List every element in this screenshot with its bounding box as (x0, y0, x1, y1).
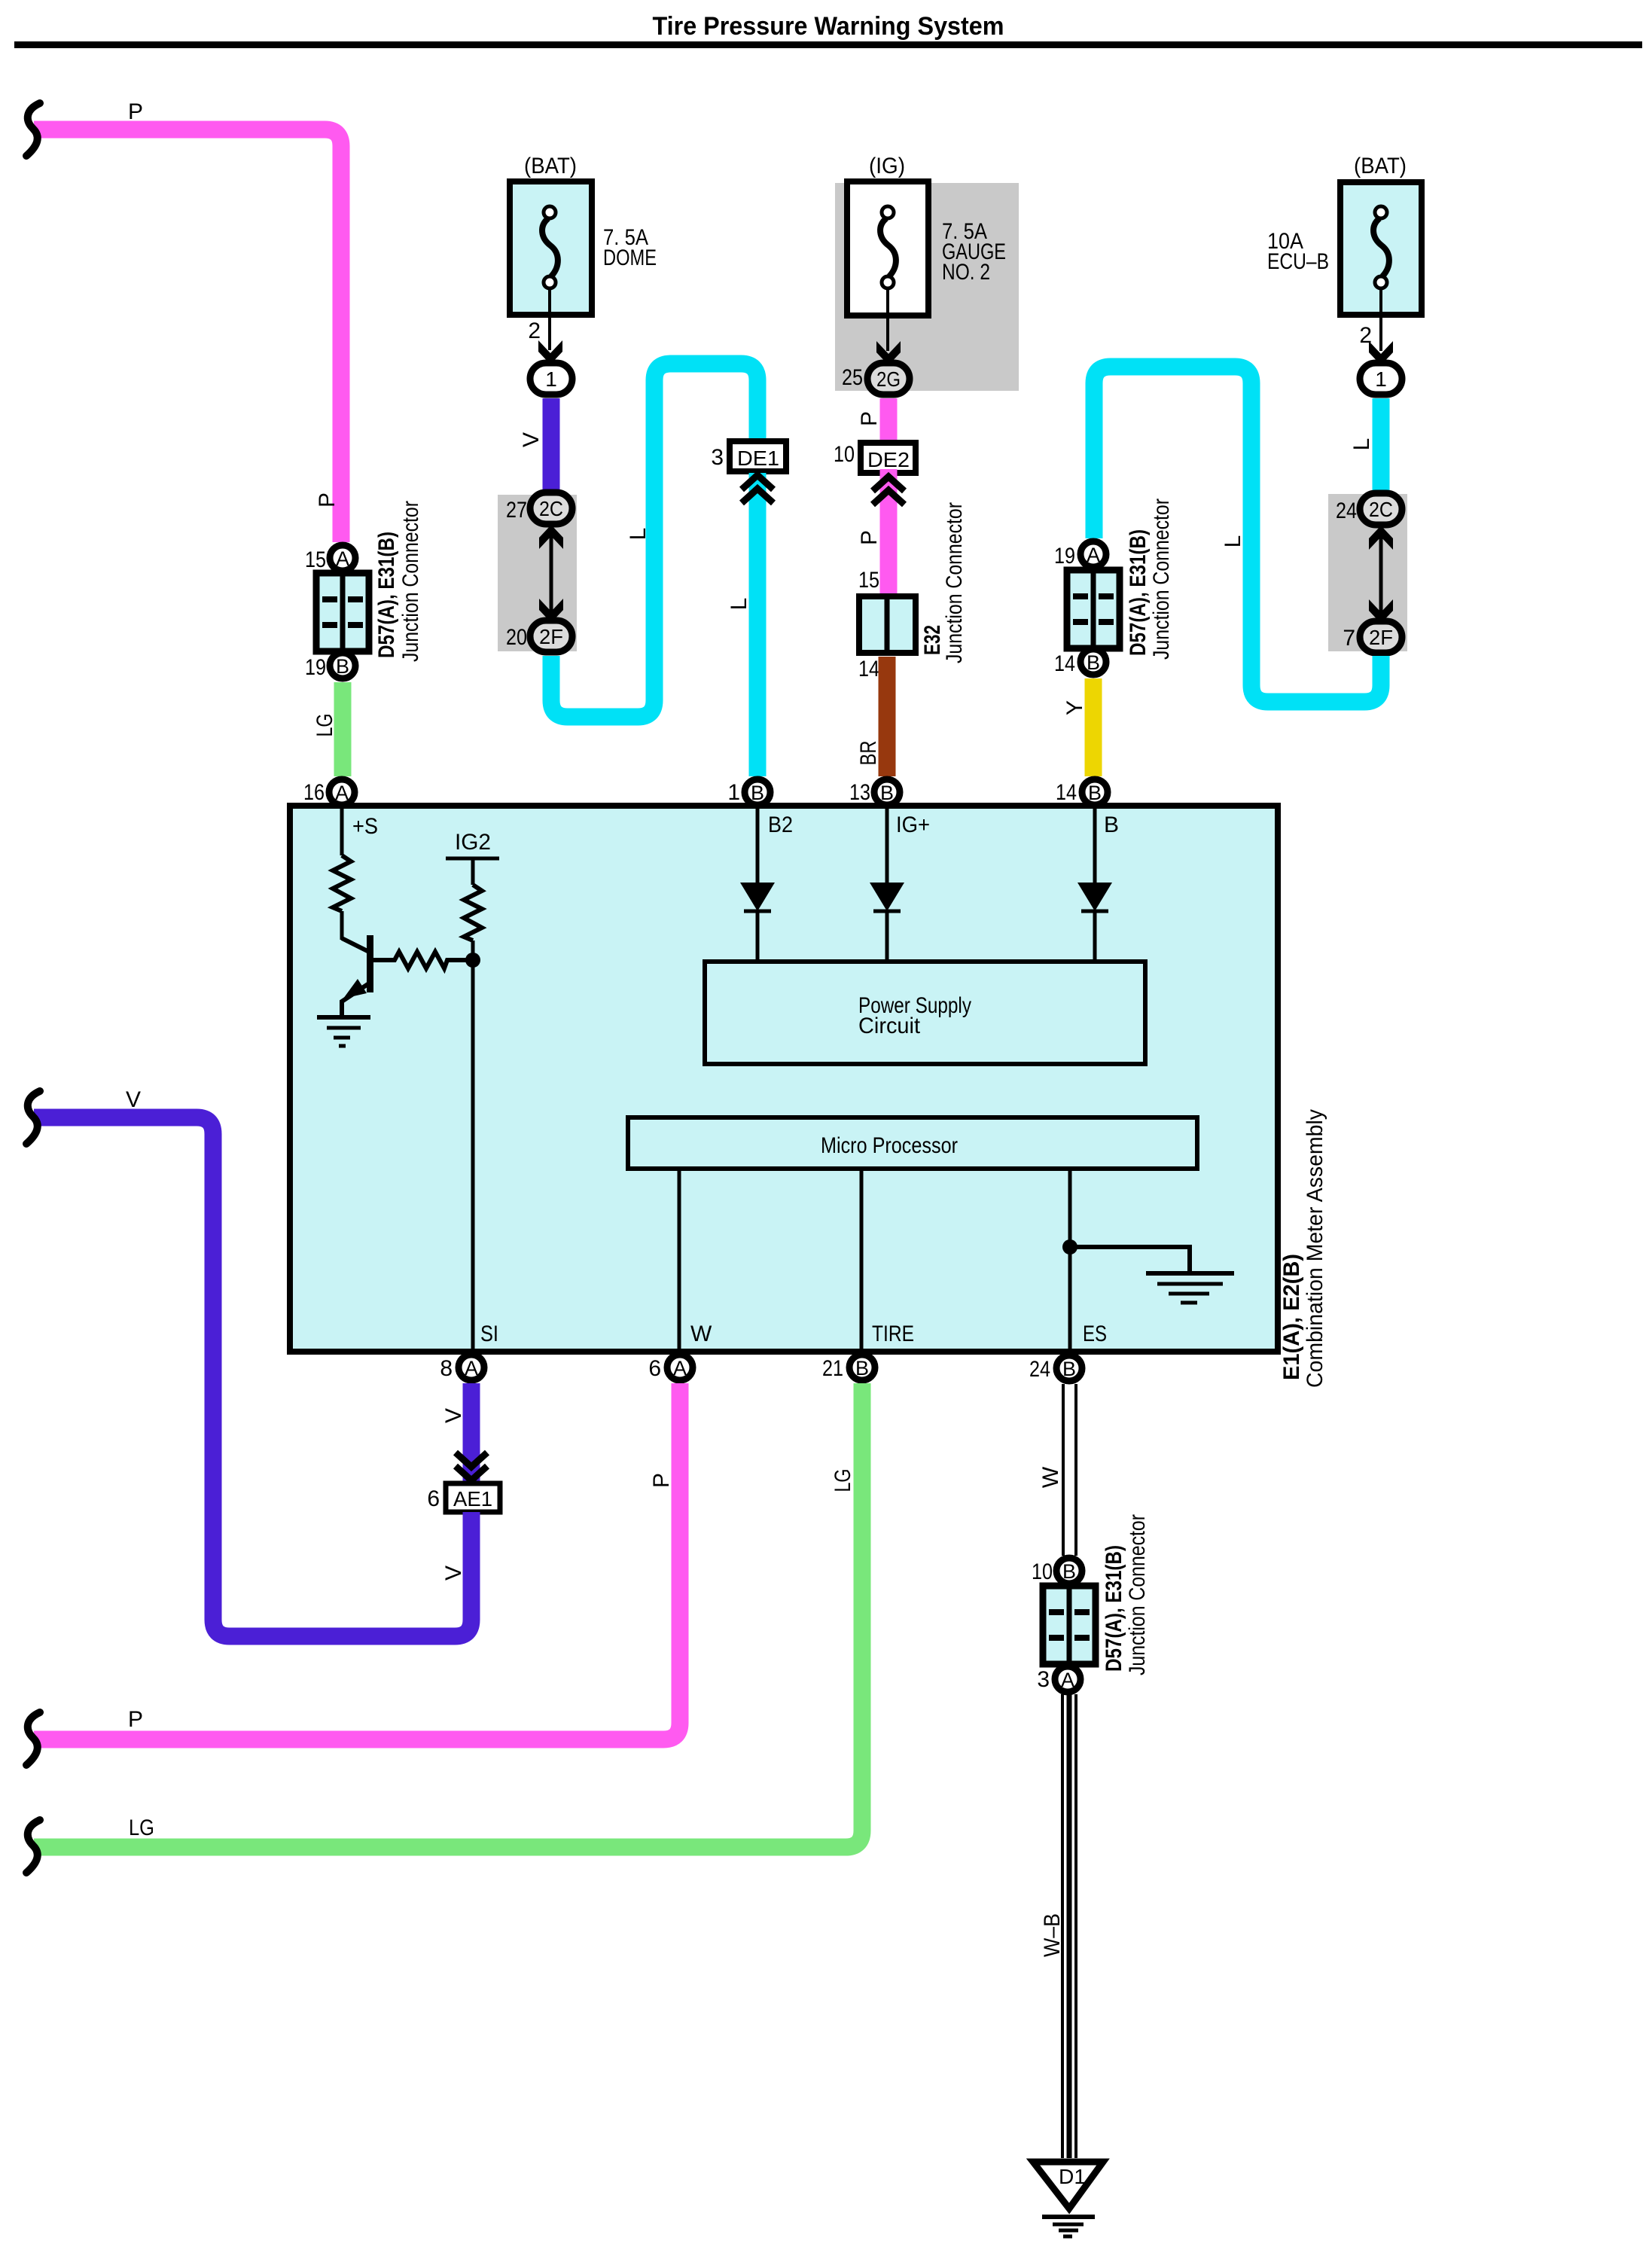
connector oval 1 (ecu-b) (1360, 363, 1402, 395)
wire Y to meter (1085, 678, 1102, 776)
svg-text:2C: 2C (1369, 498, 1393, 521)
pin B of D57 junction connector (bottom) (1056, 1558, 1082, 1584)
pin 16 A combination meter (329, 779, 355, 805)
pin A of D57 junction connector (bottom) (1055, 1666, 1081, 1692)
svg-text:10: 10 (834, 442, 855, 467)
svg-text:DE1: DE1 (737, 447, 779, 470)
node base junction (465, 953, 480, 968)
IG2 lead (471, 858, 475, 885)
wire LG pin21 to body (34, 1383, 862, 1847)
svg-text:LG: LG (312, 714, 337, 737)
continuation squiggle LG bottom (26, 1820, 40, 1873)
diode D-B2 (740, 883, 775, 911)
svg-text:14: 14 (1056, 780, 1077, 805)
svg-text:2F: 2F (539, 625, 563, 648)
svg-text:A: A (673, 1357, 687, 1379)
chevrons above AE1 (456, 1466, 487, 1480)
transistor Q1 collector lead (342, 938, 369, 952)
junction connector E32 (859, 596, 916, 653)
svg-text:2C: 2C (539, 497, 563, 520)
svg-text:Combination Meter Assembly: Combination Meter Assembly (1303, 1109, 1327, 1388)
svg-text:6: 6 (648, 1356, 661, 1381)
junction connector D57(A) E31(B) left (316, 573, 369, 651)
svg-text:L: L (727, 598, 751, 611)
arrow into connector 1 (538, 340, 562, 364)
ground at ES (1146, 1271, 1234, 1276)
title rule (14, 41, 1642, 48)
pass-through arrow up (539, 525, 563, 549)
transistor Q1 emitter arrow (343, 979, 367, 998)
svg-text:B: B (751, 782, 764, 804)
svg-text:1: 1 (545, 367, 557, 391)
svg-text:Junction Connector: Junction Connector (1149, 498, 1174, 660)
wire BR E32 to meter (879, 657, 896, 776)
pass-through shaft right (1379, 537, 1383, 612)
connector DE1 (730, 441, 786, 471)
svg-text:6: 6 (427, 1486, 440, 1511)
svg-text:24: 24 (1029, 1357, 1050, 1382)
svg-text:D57(A), E31(B): D57(A), E31(B) (1126, 529, 1151, 656)
fuse element DOME (544, 206, 556, 218)
svg-text:B: B (1062, 1560, 1076, 1583)
pin 6 A combination meter (667, 1355, 693, 1380)
svg-text:B: B (1087, 651, 1100, 674)
svg-text:Micro Processor: Micro Processor (821, 1133, 958, 1158)
fuse 10A ECU-B box (1340, 182, 1422, 315)
svg-text:15: 15 (858, 568, 879, 593)
svg-text:W: W (1038, 1466, 1063, 1488)
wire fuse to connector 1 right (1379, 288, 1382, 351)
continuation squiggle P top-left (26, 103, 40, 156)
connector oval 2C left (530, 492, 572, 524)
junction connector D57(A) E31(B) bottom (1043, 1586, 1096, 1664)
wire P from body ECU (top left) (34, 130, 341, 542)
micro processor box (628, 1117, 1197, 1169)
svg-text:LG: LG (129, 1815, 154, 1840)
wire V SI pin to chevrons (463, 1383, 480, 1483)
wire V AE1 to body (34, 1117, 471, 1636)
wire L from 2F to DE1 (551, 364, 757, 717)
continuation squiggle P bottom (26, 1712, 40, 1765)
ground point D1 (1033, 2162, 1103, 2209)
svg-text:(IG): (IG) (869, 154, 905, 178)
connector oval 1 (dome) (530, 363, 572, 395)
pin 8 A combination meter (459, 1355, 484, 1380)
svg-text:(BAT): (BAT) (1354, 154, 1407, 178)
wire LG junction to meter (334, 682, 352, 776)
svg-text:14: 14 (858, 657, 879, 681)
svg-text:2G: 2G (876, 367, 901, 391)
node ES junction (1062, 1239, 1077, 1254)
wire MP to W pin (678, 1169, 681, 1350)
svg-text:E1(A), E2(B): E1(A), E2(B) (1279, 1254, 1304, 1380)
continuation squiggle V (26, 1091, 40, 1144)
svg-text:15: 15 (305, 547, 326, 572)
wire P pin6 to body (34, 1383, 680, 1739)
svg-text:2F: 2F (1369, 626, 1393, 649)
pin 21 B combination meter (849, 1355, 875, 1380)
resistor +S (333, 855, 351, 911)
svg-text:Junction Connector: Junction Connector (942, 502, 967, 663)
connector oval 2C right (1360, 493, 1402, 525)
svg-text:NO. 2: NO. 2 (942, 260, 990, 285)
chevrons below DE1 (742, 475, 773, 489)
wire P 2G to DE2 (880, 398, 898, 443)
svg-text:DOME: DOME (603, 245, 657, 270)
wire L ecu-b (1373, 398, 1390, 493)
pin 24 B combination meter (1056, 1355, 1082, 1381)
connector oval 2G (867, 363, 910, 395)
pin 13 B combination meter (874, 779, 900, 805)
pin 14 B combination meter (1082, 779, 1108, 805)
fuse element GAUGE (882, 206, 894, 218)
svg-text:(BAT): (BAT) (524, 154, 577, 178)
svg-text:A: A (1087, 544, 1100, 566)
svg-text:W–B: W–B (1040, 1913, 1065, 1957)
power supply circuit box (705, 962, 1145, 1064)
svg-text:A: A (336, 547, 349, 570)
svg-text:24: 24 (1336, 498, 1357, 523)
wire P DE2 to E32 (880, 469, 898, 599)
diode D-IG lead (885, 808, 889, 885)
pin B of D57 junction connector (left) (330, 653, 355, 678)
svg-text:Junction Connector: Junction Connector (1125, 1514, 1150, 1675)
arrow into connector 1 right (1369, 341, 1393, 365)
svg-text:Tire Pressure Warning System: Tire Pressure Warning System (653, 12, 1004, 41)
svg-text:1: 1 (1375, 367, 1387, 391)
svg-text:W: W (690, 1322, 712, 1346)
svg-text:P: P (649, 1473, 674, 1488)
svg-text:B: B (1104, 812, 1119, 837)
svg-text:27: 27 (506, 498, 527, 523)
svg-text:V: V (519, 432, 544, 447)
IG2 rail bar (446, 857, 499, 861)
svg-text:19: 19 (1054, 544, 1075, 569)
wire fuse to connector 1 (548, 288, 551, 350)
diode D-B (1077, 883, 1112, 911)
fuse 7.5A GAUGE box (847, 181, 928, 316)
diode D-IG (870, 883, 904, 911)
svg-text:P: P (315, 492, 340, 508)
connector oval 2F right (1360, 621, 1402, 653)
diode D-B2 lead (756, 808, 760, 885)
junction connector D57(A) E31(B) right (1067, 570, 1120, 648)
svg-text:21: 21 (822, 1356, 843, 1381)
svg-text:A: A (1061, 1669, 1074, 1691)
svg-text:1: 1 (727, 780, 740, 805)
svg-text:10: 10 (1032, 1559, 1053, 1584)
svg-text:D57(A), E31(B): D57(A), E31(B) (1102, 1545, 1126, 1672)
svg-text:D1: D1 (1059, 2165, 1086, 2188)
connector oval 2F left (530, 620, 572, 652)
pin A of D57 junction connector (right) (1081, 541, 1106, 567)
ground symbol D1 (1042, 2215, 1095, 2219)
svg-text:AE1: AE1 (453, 1487, 492, 1511)
svg-text:B: B (1062, 1358, 1076, 1380)
wire IG2 to SI pin (471, 940, 475, 1350)
combination meter assembly box (290, 806, 1278, 1352)
wire W pin24 to junction (white wire) (1062, 1384, 1065, 1556)
wire L 2F right to D57 (1094, 367, 1381, 702)
svg-text:P: P (128, 1707, 143, 1732)
svg-text:A: A (335, 782, 349, 804)
wire fuse to 2G (886, 288, 889, 351)
svg-text:Junction Connector: Junction Connector (398, 501, 423, 662)
svg-text:7: 7 (1343, 626, 1355, 651)
svg-text:B: B (1088, 782, 1102, 804)
svg-text:L: L (626, 528, 651, 541)
svg-text:B2: B2 (768, 812, 793, 837)
pin A of D57 junction connector (left) (330, 545, 355, 571)
svg-text:IG+: IG+ (896, 812, 930, 837)
svg-text:D57(A), E31(B): D57(A), E31(B) (374, 532, 399, 658)
svg-text:19: 19 (305, 655, 326, 680)
svg-text:B: B (880, 782, 894, 804)
svg-text:+S: +S (352, 814, 378, 839)
gray panel 2C/2F right (1328, 494, 1407, 651)
svg-text:IG2: IG2 (455, 830, 491, 855)
wire ES to ground (1070, 1247, 1190, 1272)
svg-text:14: 14 (1054, 651, 1075, 676)
wire +S lead (340, 808, 344, 855)
svg-text:LG: LG (831, 1469, 855, 1492)
svg-text:L: L (1221, 535, 1245, 548)
fuse 7.5A DOME box (510, 181, 592, 315)
transistor Q1 base bar (367, 935, 373, 992)
svg-text:Y: Y (1062, 700, 1087, 715)
svg-text:8: 8 (440, 1356, 453, 1381)
pin 1 B combination meter (745, 779, 770, 805)
svg-text:20: 20 (506, 625, 527, 650)
svg-text:3: 3 (1037, 1667, 1050, 1692)
svg-text:TIRE: TIRE (872, 1322, 914, 1346)
svg-text:P: P (857, 530, 882, 545)
wire V dome (543, 398, 560, 493)
svg-text:DE2: DE2 (867, 448, 910, 471)
svg-text:V: V (441, 1408, 466, 1423)
fuse element ECU-B (1375, 206, 1387, 218)
gray panel 2C/2F left (498, 495, 577, 651)
svg-text:SI: SI (480, 1322, 498, 1346)
pass-through arrow down right (1369, 599, 1393, 623)
wire resistor to transistor (340, 911, 344, 940)
svg-text:P: P (128, 99, 143, 124)
svg-text:V: V (126, 1087, 141, 1112)
svg-text:ES: ES (1083, 1322, 1107, 1346)
wire L DE1 to meter (749, 473, 767, 776)
base resistor (373, 952, 468, 968)
svg-text:25: 25 (842, 365, 863, 390)
ground at emitter (317, 1015, 370, 1020)
svg-text:B: B (855, 1357, 869, 1379)
resistor IG2 (464, 885, 482, 940)
pass-through shaft (550, 536, 553, 611)
diode D-B lead (1093, 808, 1097, 885)
svg-text:V: V (441, 1565, 466, 1581)
svg-text:Circuit: Circuit (858, 1014, 921, 1038)
svg-text:L: L (1349, 438, 1374, 451)
transistor Q1 emitter lead (342, 983, 369, 1017)
pass-through arrow down (539, 599, 563, 623)
connector AE1 (446, 1483, 500, 1512)
svg-text:P: P (857, 411, 882, 426)
svg-text:13: 13 (849, 780, 870, 805)
wire MP to ES pin (1068, 1169, 1072, 1350)
gray panel IG fuse (835, 183, 1019, 391)
svg-text:16: 16 (303, 780, 325, 805)
svg-text:B: B (336, 655, 349, 678)
svg-text:2: 2 (528, 319, 541, 343)
wire W-B junction to D1 (1061, 1694, 1064, 2158)
arrow into 2G (876, 341, 901, 365)
svg-text:A: A (465, 1357, 478, 1379)
pin B of D57 junction connector (right) (1081, 649, 1106, 675)
svg-text:ECU–B: ECU–B (1267, 249, 1329, 274)
svg-text:3: 3 (711, 445, 724, 470)
connector DE2 (861, 443, 916, 473)
pass-through arrow up right (1369, 526, 1393, 550)
chevrons below DE2 (873, 477, 904, 491)
svg-text:BR: BR (856, 741, 881, 766)
wire MP to TIRE pin (860, 1169, 864, 1350)
